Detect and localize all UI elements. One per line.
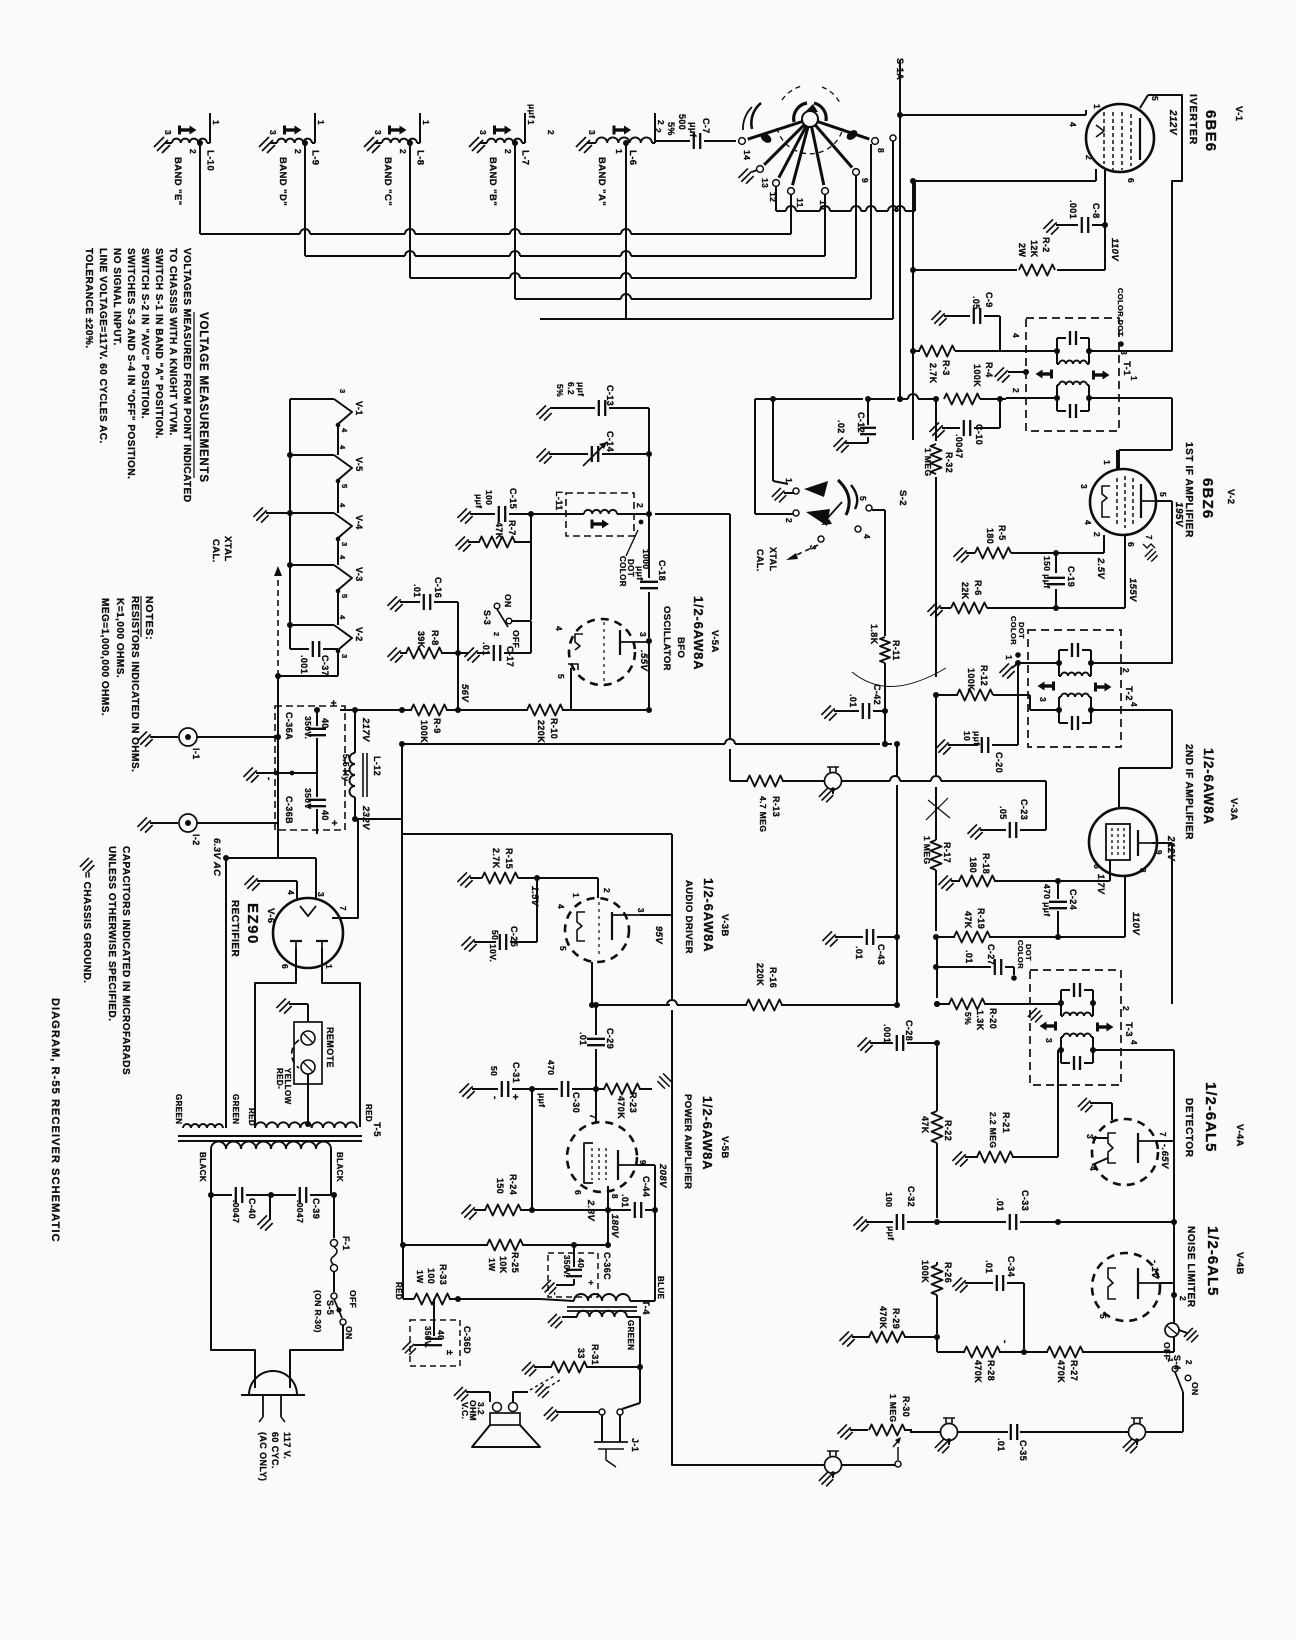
tube V-1 6BE6 xyxy=(1086,104,1154,172)
AC plug xyxy=(241,1371,305,1422)
svg-text:47K: 47K xyxy=(494,522,504,540)
svg-text:C-40: C-40 xyxy=(247,1198,257,1219)
ground for L-8 xyxy=(364,137,380,153)
svg-text:2W: 2W xyxy=(1017,243,1027,257)
svg-text:100K: 100K xyxy=(966,668,976,691)
svg-text:3: 3 xyxy=(163,130,173,135)
V-2 labels xyxy=(1173,442,1236,538)
S-1 contact labels xyxy=(742,148,886,210)
L-9 label xyxy=(310,150,321,165)
svg-text:100: 100 xyxy=(426,1268,436,1284)
jack AVC xyxy=(819,767,842,802)
svg-text:C-27: C-27 xyxy=(986,944,996,965)
svg-text:V-2: V-2 xyxy=(354,627,364,642)
svg-text:F-1: F-1 xyxy=(341,1236,351,1251)
svg-text:3: 3 xyxy=(268,130,278,135)
svg-text:RED: RED xyxy=(364,1104,373,1122)
wire xtal bus xyxy=(287,399,293,649)
capacitor C-36D box xyxy=(410,1320,460,1366)
svg-text:4: 4 xyxy=(1088,1166,1098,1171)
color dot T-3 xyxy=(1011,940,1033,981)
svg-text:1/2-6AW8A: 1/2-6AW8A xyxy=(700,1096,715,1170)
svg-text:.001: .001 xyxy=(1068,200,1078,219)
svg-text:NO SIGNAL INPUT.: NO SIGNAL INPUT. xyxy=(111,248,122,346)
svg-text:1/2-6AL5: 1/2-6AL5 xyxy=(1204,1226,1221,1297)
svg-text:2: 2 xyxy=(784,518,794,523)
svg-text:2.2 MEG: 2.2 MEG xyxy=(988,1112,998,1148)
svg-text:-: - xyxy=(489,1096,500,1100)
wire V-1 grid top xyxy=(897,110,1086,118)
svg-text:μμf: μμf xyxy=(635,566,645,580)
capacitor C-7 xyxy=(653,114,736,149)
tube V-4B xyxy=(1092,1253,1160,1321)
wire contact 10 riser xyxy=(824,194,826,256)
resistor R-27 xyxy=(1024,1347,1174,1384)
svg-text:4: 4 xyxy=(286,890,296,895)
wire plug left xyxy=(211,1195,255,1388)
svg-text:DOT: DOT xyxy=(626,559,635,577)
svg-text:R-18: R-18 xyxy=(981,853,991,874)
svg-text:1: 1 xyxy=(784,478,794,483)
svg-text:.0047: .0047 xyxy=(231,1200,241,1223)
svg-text:C-13: C-13 xyxy=(605,385,615,406)
capacitor C-44 xyxy=(608,1176,658,1218)
switch S-3 xyxy=(482,594,531,648)
resistor R-10 xyxy=(458,705,652,744)
remote connector box xyxy=(292,1022,335,1084)
svg-text:212V: 212V xyxy=(1165,835,1176,862)
svg-text:C-34: C-34 xyxy=(1006,1256,1016,1277)
wire T-1 upper right xyxy=(1089,95,1182,351)
wire BFO cathode xyxy=(570,668,572,710)
svg-text:.01: .01 xyxy=(964,950,974,964)
svg-text:R-15: R-15 xyxy=(504,848,514,869)
svg-text:REMOTE: REMOTE xyxy=(325,1027,335,1068)
wire x937 cont xyxy=(935,787,937,931)
wire V-5B cathode xyxy=(605,1186,611,1213)
svg-text:C-36C: C-36C xyxy=(602,1252,612,1280)
svg-text:3: 3 xyxy=(587,130,597,135)
switch S-5 xyxy=(313,1272,358,1340)
switch S-1 contact 9 xyxy=(815,125,859,175)
svg-text:BAND "E": BAND "E" xyxy=(172,157,183,206)
svg-text:BFO: BFO xyxy=(675,637,686,658)
svg-text:μμf: μμf xyxy=(886,1226,896,1240)
svg-text:1: 1 xyxy=(526,120,536,125)
svg-text:3: 3 xyxy=(1038,697,1048,702)
svg-text:.0047: .0047 xyxy=(295,1200,305,1223)
svg-text:6: 6 xyxy=(1126,542,1136,547)
svg-text:BLUE: BLUE xyxy=(656,1276,665,1300)
svg-text:C-36B: C-36B xyxy=(284,796,294,824)
capacitor C-35 xyxy=(996,1424,1028,1461)
resistor R-22 xyxy=(920,1109,953,1218)
svg-text:1 MEG: 1 MEG xyxy=(922,836,932,864)
tube V-4A xyxy=(1092,1119,1158,1185)
wire heater drop xyxy=(225,858,227,1128)
svg-text:L-7: L-7 xyxy=(520,150,531,165)
capacitor C-17 xyxy=(458,621,531,667)
svg-text:.01: .01 xyxy=(620,1194,630,1208)
svg-text:R-33: R-33 xyxy=(438,1264,448,1285)
capacitor C-40 xyxy=(208,1187,274,1223)
svg-text:C-33: C-33 xyxy=(1020,1190,1030,1211)
xtal position V-5 xyxy=(290,455,364,513)
resistor R-13 xyxy=(730,776,824,833)
svg-text:2: 2 xyxy=(656,120,666,125)
coil L-9 xyxy=(268,113,326,154)
resistor R-29 xyxy=(839,1306,937,1347)
resistor R-32 xyxy=(923,399,954,677)
svg-text:R-16: R-16 xyxy=(768,967,778,988)
wire AVC bus det xyxy=(934,1219,940,1225)
svg-text:3: 3 xyxy=(1079,484,1089,489)
svg-text:R-10: R-10 xyxy=(549,718,559,739)
svg-text:-.65V: -.65V xyxy=(1159,1144,1170,1169)
svg-text:XTAL: XTAL xyxy=(222,536,233,562)
transformer T-4 secondary xyxy=(577,1311,635,1351)
svg-text:155V: 155V xyxy=(1127,578,1138,602)
svg-text:C-36A: C-36A xyxy=(284,712,294,740)
svg-text:(AC ONLY): (AC ONLY) xyxy=(258,1432,268,1481)
V-4A pin labels xyxy=(1085,1132,1170,1171)
svg-text:2: 2 xyxy=(1084,155,1094,160)
svg-text:-.1V: -.1V xyxy=(1149,1260,1160,1279)
svg-text:BAND "C": BAND "C" xyxy=(382,157,393,206)
svg-text:220K: 220K xyxy=(755,963,765,986)
svg-text:V-6: V-6 xyxy=(265,908,276,923)
voltage heading xyxy=(194,312,209,483)
svg-text:8: 8 xyxy=(610,1194,619,1199)
svg-text:5: 5 xyxy=(340,594,349,599)
svg-text:S-3: S-3 xyxy=(482,610,492,625)
capacitor C-13 xyxy=(536,405,551,420)
wire T-1 lower right xyxy=(1089,398,1172,469)
svg-text:.001: .001 xyxy=(299,655,309,674)
wire V-6 pin1 xyxy=(322,948,360,1127)
svg-text:RECTIFIER: RECTIFIER xyxy=(229,900,240,958)
svg-text:2: 2 xyxy=(492,632,501,637)
svg-text:C-8: C-8 xyxy=(1091,203,1101,219)
wire R33 to T4 xyxy=(540,1299,574,1301)
svg-text:T-1: T-1 xyxy=(1121,361,1132,376)
capacitor C-31 xyxy=(459,1062,535,1100)
wire V-5B plate xyxy=(637,1165,655,1301)
wire x403 rail xyxy=(401,819,403,1245)
wire bumpy bus xyxy=(776,181,915,211)
svg-text:4: 4 xyxy=(862,534,872,539)
svg-text:6: 6 xyxy=(573,1190,583,1195)
wire V-3B cathode xyxy=(589,962,595,1008)
wire S-1A top line xyxy=(895,58,905,402)
svg-text:2: 2 xyxy=(1121,1006,1131,1011)
svg-text:8: 8 xyxy=(1138,868,1147,873)
svg-text:R-31: R-31 xyxy=(590,1344,600,1365)
svg-text:C-7: C-7 xyxy=(701,118,711,134)
svg-text:7: 7 xyxy=(588,1114,598,1119)
svg-text:C-32: C-32 xyxy=(906,1186,916,1207)
plug labels xyxy=(258,1432,292,1481)
svg-text:R-20: R-20 xyxy=(988,1008,998,1029)
ground remote xyxy=(276,998,308,1022)
svg-text:YELLOW: YELLOW xyxy=(283,1068,292,1105)
capacitor C-23 xyxy=(967,806,1046,840)
svg-text:C-43: C-43 xyxy=(876,944,886,965)
svg-text:T-2: T-2 xyxy=(1123,686,1134,701)
svg-text:1/2-6AL5: 1/2-6AL5 xyxy=(1202,1082,1219,1153)
svg-text:2: 2 xyxy=(546,130,556,135)
IF transformer T-3 xyxy=(1030,970,1134,1085)
xtal V-1 pins xyxy=(338,389,349,433)
svg-text:R-22: R-22 xyxy=(943,1120,953,1141)
coil L-10 xyxy=(163,113,221,154)
svg-text:.01: .01 xyxy=(481,642,491,656)
capacitor C-36A box xyxy=(275,706,345,830)
tube V-6 EZ90 xyxy=(273,898,343,968)
V-5A labels xyxy=(661,596,720,671)
C-40 ground xyxy=(257,1195,272,1231)
svg-text:+: + xyxy=(586,1280,596,1286)
svg-text:9: 9 xyxy=(860,178,870,183)
svg-text:K=1,000 OHMS.: K=1,000 OHMS. xyxy=(114,598,125,678)
wire lamp bus xyxy=(277,676,279,823)
capacitor C-37 xyxy=(290,641,338,676)
capacitor C-30 xyxy=(532,1060,593,1113)
svg-text:470 μμf: 470 μμf xyxy=(1042,884,1052,917)
switch S-1 contact 8 xyxy=(818,122,879,145)
resistor R-18 xyxy=(938,853,1061,891)
svg-text:S-5: S-5 xyxy=(325,1300,335,1315)
voltage 110V xyxy=(1109,238,1120,261)
svg-text:C-9: C-9 xyxy=(984,292,994,308)
capacitor C-43 xyxy=(822,929,900,965)
scratch mark xyxy=(926,798,950,820)
svg-text:150 μμf: 150 μμf xyxy=(1042,556,1052,589)
svg-text:3: 3 xyxy=(636,908,645,913)
jack audio 1 xyxy=(935,1418,958,1453)
svg-text:6: 6 xyxy=(280,964,290,969)
svg-text:2ND IF AMPLIFIER: 2ND IF AMPLIFIER xyxy=(1183,744,1194,840)
svg-text:47K: 47K xyxy=(920,1116,930,1134)
svg-text:.05: .05 xyxy=(998,806,1008,820)
svg-text:C-19: C-19 xyxy=(1066,566,1076,587)
speaker labels xyxy=(460,1400,486,1421)
switch S-2 xyxy=(793,480,872,542)
transformer T-4 primary xyxy=(574,1294,655,1301)
xtal position V-4 xyxy=(290,513,364,565)
svg-text:2: 2 xyxy=(1092,532,1102,537)
wire band bus E xyxy=(540,318,893,320)
svg-text:GREEN: GREEN xyxy=(174,1094,183,1124)
xtal position V-2 xyxy=(290,625,364,653)
wire x937 det xyxy=(936,1043,938,1109)
svg-text:TOLERANCE ±20%.: TOLERANCE ±20%. xyxy=(83,248,94,349)
wire L-10 drop xyxy=(199,143,201,234)
svg-text:60 CYC.: 60 CYC. xyxy=(270,1432,280,1469)
svg-text:1.8K: 1.8K xyxy=(869,624,879,645)
L-6 band label xyxy=(596,157,607,206)
svg-text:470K: 470K xyxy=(1056,1360,1066,1383)
svg-text:1/2-6AW8A: 1/2-6AW8A xyxy=(701,878,716,952)
speaker vc wire xyxy=(513,1375,556,1402)
svg-text:DOT: DOT xyxy=(1024,944,1033,961)
svg-text:.01: .01 xyxy=(996,1438,1006,1452)
svg-text:C-15: C-15 xyxy=(508,488,518,509)
capacitor C-10 xyxy=(929,396,1003,459)
resistor R-23 xyxy=(596,1073,673,1119)
resistor R-4 xyxy=(933,362,1057,405)
svg-text:2.7K: 2.7K xyxy=(928,363,938,384)
svg-text:-: - xyxy=(263,777,274,781)
switch S-1 contact 13 xyxy=(757,125,805,173)
wire V-6 pin7 xyxy=(332,819,358,918)
svg-text:1: 1 xyxy=(1092,104,1102,109)
resistor R-33 xyxy=(394,1245,540,1305)
svg-text:L-11: L-11 xyxy=(554,491,564,511)
V-4A stubs xyxy=(1092,1138,1108,1165)
svg-text:500: 500 xyxy=(677,114,687,130)
C-23 name xyxy=(1019,799,1029,820)
svg-text:C-24: C-24 xyxy=(1068,889,1078,910)
svg-text:OFF: OFF xyxy=(348,1290,358,1308)
wire remote bottom xyxy=(275,1068,311,1127)
svg-text:5%: 5% xyxy=(963,1012,973,1025)
capacitor C-19 xyxy=(1042,553,1076,611)
svg-text:R-30: R-30 xyxy=(901,1396,911,1417)
svg-text:RED-: RED- xyxy=(275,1068,284,1089)
V-4B wires xyxy=(1098,1260,1188,1319)
svg-text:R-8: R-8 xyxy=(430,630,440,646)
svg-text:.0047: .0047 xyxy=(954,434,964,459)
svg-text:180V: 180V xyxy=(609,1214,620,1238)
resistor R-2 xyxy=(910,237,1105,276)
svg-text:100K: 100K xyxy=(419,720,429,743)
svg-text:.001: .001 xyxy=(882,1024,892,1043)
inductor L-12 xyxy=(341,707,382,822)
capacitor C-25 xyxy=(461,878,537,962)
T-4 sec left gnd xyxy=(548,1314,577,1328)
svg-text:100: 100 xyxy=(484,490,494,505)
fuse F-1 xyxy=(331,1195,352,1272)
svg-text:C-23: C-23 xyxy=(1019,799,1029,820)
V-3B labels xyxy=(653,878,730,954)
wire long audio left xyxy=(672,1010,895,1465)
svg-text:C-17: C-17 xyxy=(505,646,515,667)
capacitor C-27 body xyxy=(964,944,1014,975)
svg-text:22K: 22K xyxy=(960,582,970,600)
svg-text:350V.: 350V. xyxy=(423,1326,432,1348)
switch S-1 wiper blobs xyxy=(743,103,859,145)
svg-text:R-13: R-13 xyxy=(771,796,781,817)
svg-text:2.7K: 2.7K xyxy=(491,848,501,869)
IF transformer T-2 xyxy=(1028,630,1134,747)
svg-text:11: 11 xyxy=(795,198,805,208)
voltage note line 8 xyxy=(83,248,94,349)
wire grid V-5B xyxy=(595,1089,597,1122)
svg-text:C-39: C-39 xyxy=(311,1198,321,1219)
svg-text:6BE6: 6BE6 xyxy=(1202,110,1219,152)
svg-text:CAL.: CAL. xyxy=(755,549,765,572)
svg-text:BLACK: BLACK xyxy=(198,1152,207,1182)
switch S-1 contact 14 xyxy=(739,122,803,145)
svg-text:V-4A: V-4A xyxy=(1234,1124,1245,1147)
resistor R-5 xyxy=(953,525,1022,563)
wire j1 drop xyxy=(622,1367,640,1409)
wire contact 8 riser xyxy=(870,144,872,299)
capacitor C-29 xyxy=(578,1005,615,1092)
svg-text:L-10: L-10 xyxy=(205,150,216,171)
wire BFO plate down xyxy=(648,641,650,710)
V-5A pin labels xyxy=(554,626,649,679)
wire V-2 plate xyxy=(1156,501,1172,664)
notes heading xyxy=(141,596,155,640)
ground for L-10 xyxy=(154,137,170,153)
svg-text:.01: .01 xyxy=(984,1260,994,1274)
svg-text:47K: 47K xyxy=(963,911,973,929)
resistor R-15 xyxy=(457,848,540,907)
wire AVC to C-23 xyxy=(1045,781,1047,830)
svg-text:1.7V: 1.7V xyxy=(1096,874,1106,895)
capacitors note 2 xyxy=(106,846,117,1022)
svg-text:V-3A: V-3A xyxy=(1228,798,1239,821)
wire NL cathode drop xyxy=(1171,1222,1177,1298)
T-3 terminal labels xyxy=(1044,1006,1138,1045)
svg-text:5: 5 xyxy=(340,484,349,489)
svg-text:.55V: .55V xyxy=(638,650,649,671)
xtal position V-1 xyxy=(290,399,364,455)
svg-text:350V: 350V xyxy=(303,788,313,809)
svg-text:4: 4 xyxy=(338,503,347,508)
svg-text:1: 1 xyxy=(324,964,334,969)
svg-text:2: 2 xyxy=(653,128,663,133)
svg-text:1.3K: 1.3K xyxy=(975,1010,985,1031)
svg-text:5%: 5% xyxy=(666,122,676,136)
resistor R-16 xyxy=(593,1002,670,1008)
svg-text:μμf: μμf xyxy=(537,1093,547,1107)
svg-text:180: 180 xyxy=(985,528,995,544)
svg-text:150: 150 xyxy=(495,1178,505,1194)
svg-text:RED: RED xyxy=(247,1108,256,1126)
R-16 bus cont xyxy=(667,963,900,1011)
svg-text:RESISTORS INDICATED IN OHMS.: RESISTORS INDICATED IN OHMS. xyxy=(129,596,140,772)
ground for L-7 xyxy=(469,137,485,153)
svg-text:R-29: R-29 xyxy=(891,1308,901,1329)
V-1 labels xyxy=(1167,94,1244,152)
svg-text:R-3: R-3 xyxy=(941,360,951,376)
resistor R-12 xyxy=(933,665,1059,710)
V-6 pin labels xyxy=(280,890,347,969)
wire 217V node xyxy=(340,710,402,742)
svg-text:6: 6 xyxy=(1126,178,1136,183)
wire audio B+ xyxy=(402,834,672,1000)
switch S-1 contact 12 xyxy=(773,126,807,186)
svg-text:12: 12 xyxy=(768,192,778,202)
svg-text:C-18: C-18 xyxy=(657,560,667,581)
svg-text:5: 5 xyxy=(558,946,568,951)
svg-text:1: 1 xyxy=(316,120,326,125)
wire V-1 pin6 drop xyxy=(1102,170,1108,270)
svg-text:2: 2 xyxy=(635,503,645,508)
wire T-2 upper right xyxy=(1091,662,1172,664)
svg-text:10K: 10K xyxy=(498,1256,508,1274)
C-18 value xyxy=(635,566,645,580)
wire T-1 upper left xyxy=(913,350,920,352)
svg-text:BAND "A": BAND "A" xyxy=(596,157,607,206)
svg-text:3: 3 xyxy=(638,632,648,637)
diagram title xyxy=(49,998,61,1243)
svg-text:10: 10 xyxy=(818,200,828,210)
svg-text:3: 3 xyxy=(338,389,347,394)
